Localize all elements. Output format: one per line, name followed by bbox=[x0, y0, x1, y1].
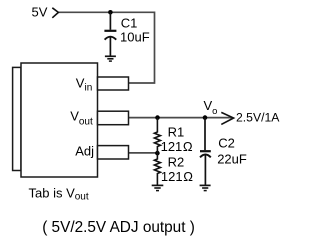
svg-text:22uF: 22uF bbox=[217, 152, 247, 167]
svg-text:C2: C2 bbox=[218, 136, 235, 151]
svg-text:Adj: Adj bbox=[75, 144, 94, 159]
svg-text:5V: 5V bbox=[32, 4, 48, 19]
svg-text:121Ω: 121Ω bbox=[161, 169, 193, 184]
svg-text:10uF: 10uF bbox=[120, 30, 150, 45]
svg-text:R1: R1 bbox=[168, 125, 185, 140]
svg-text:C1: C1 bbox=[121, 16, 138, 31]
svg-text:( 5V/2.5V ADJ output ): ( 5V/2.5V ADJ output ) bbox=[42, 219, 195, 236]
svg-text:2.5V/1A: 2.5V/1A bbox=[236, 111, 280, 125]
svg-text:121Ω: 121Ω bbox=[161, 139, 193, 154]
svg-text:R2: R2 bbox=[168, 154, 185, 169]
